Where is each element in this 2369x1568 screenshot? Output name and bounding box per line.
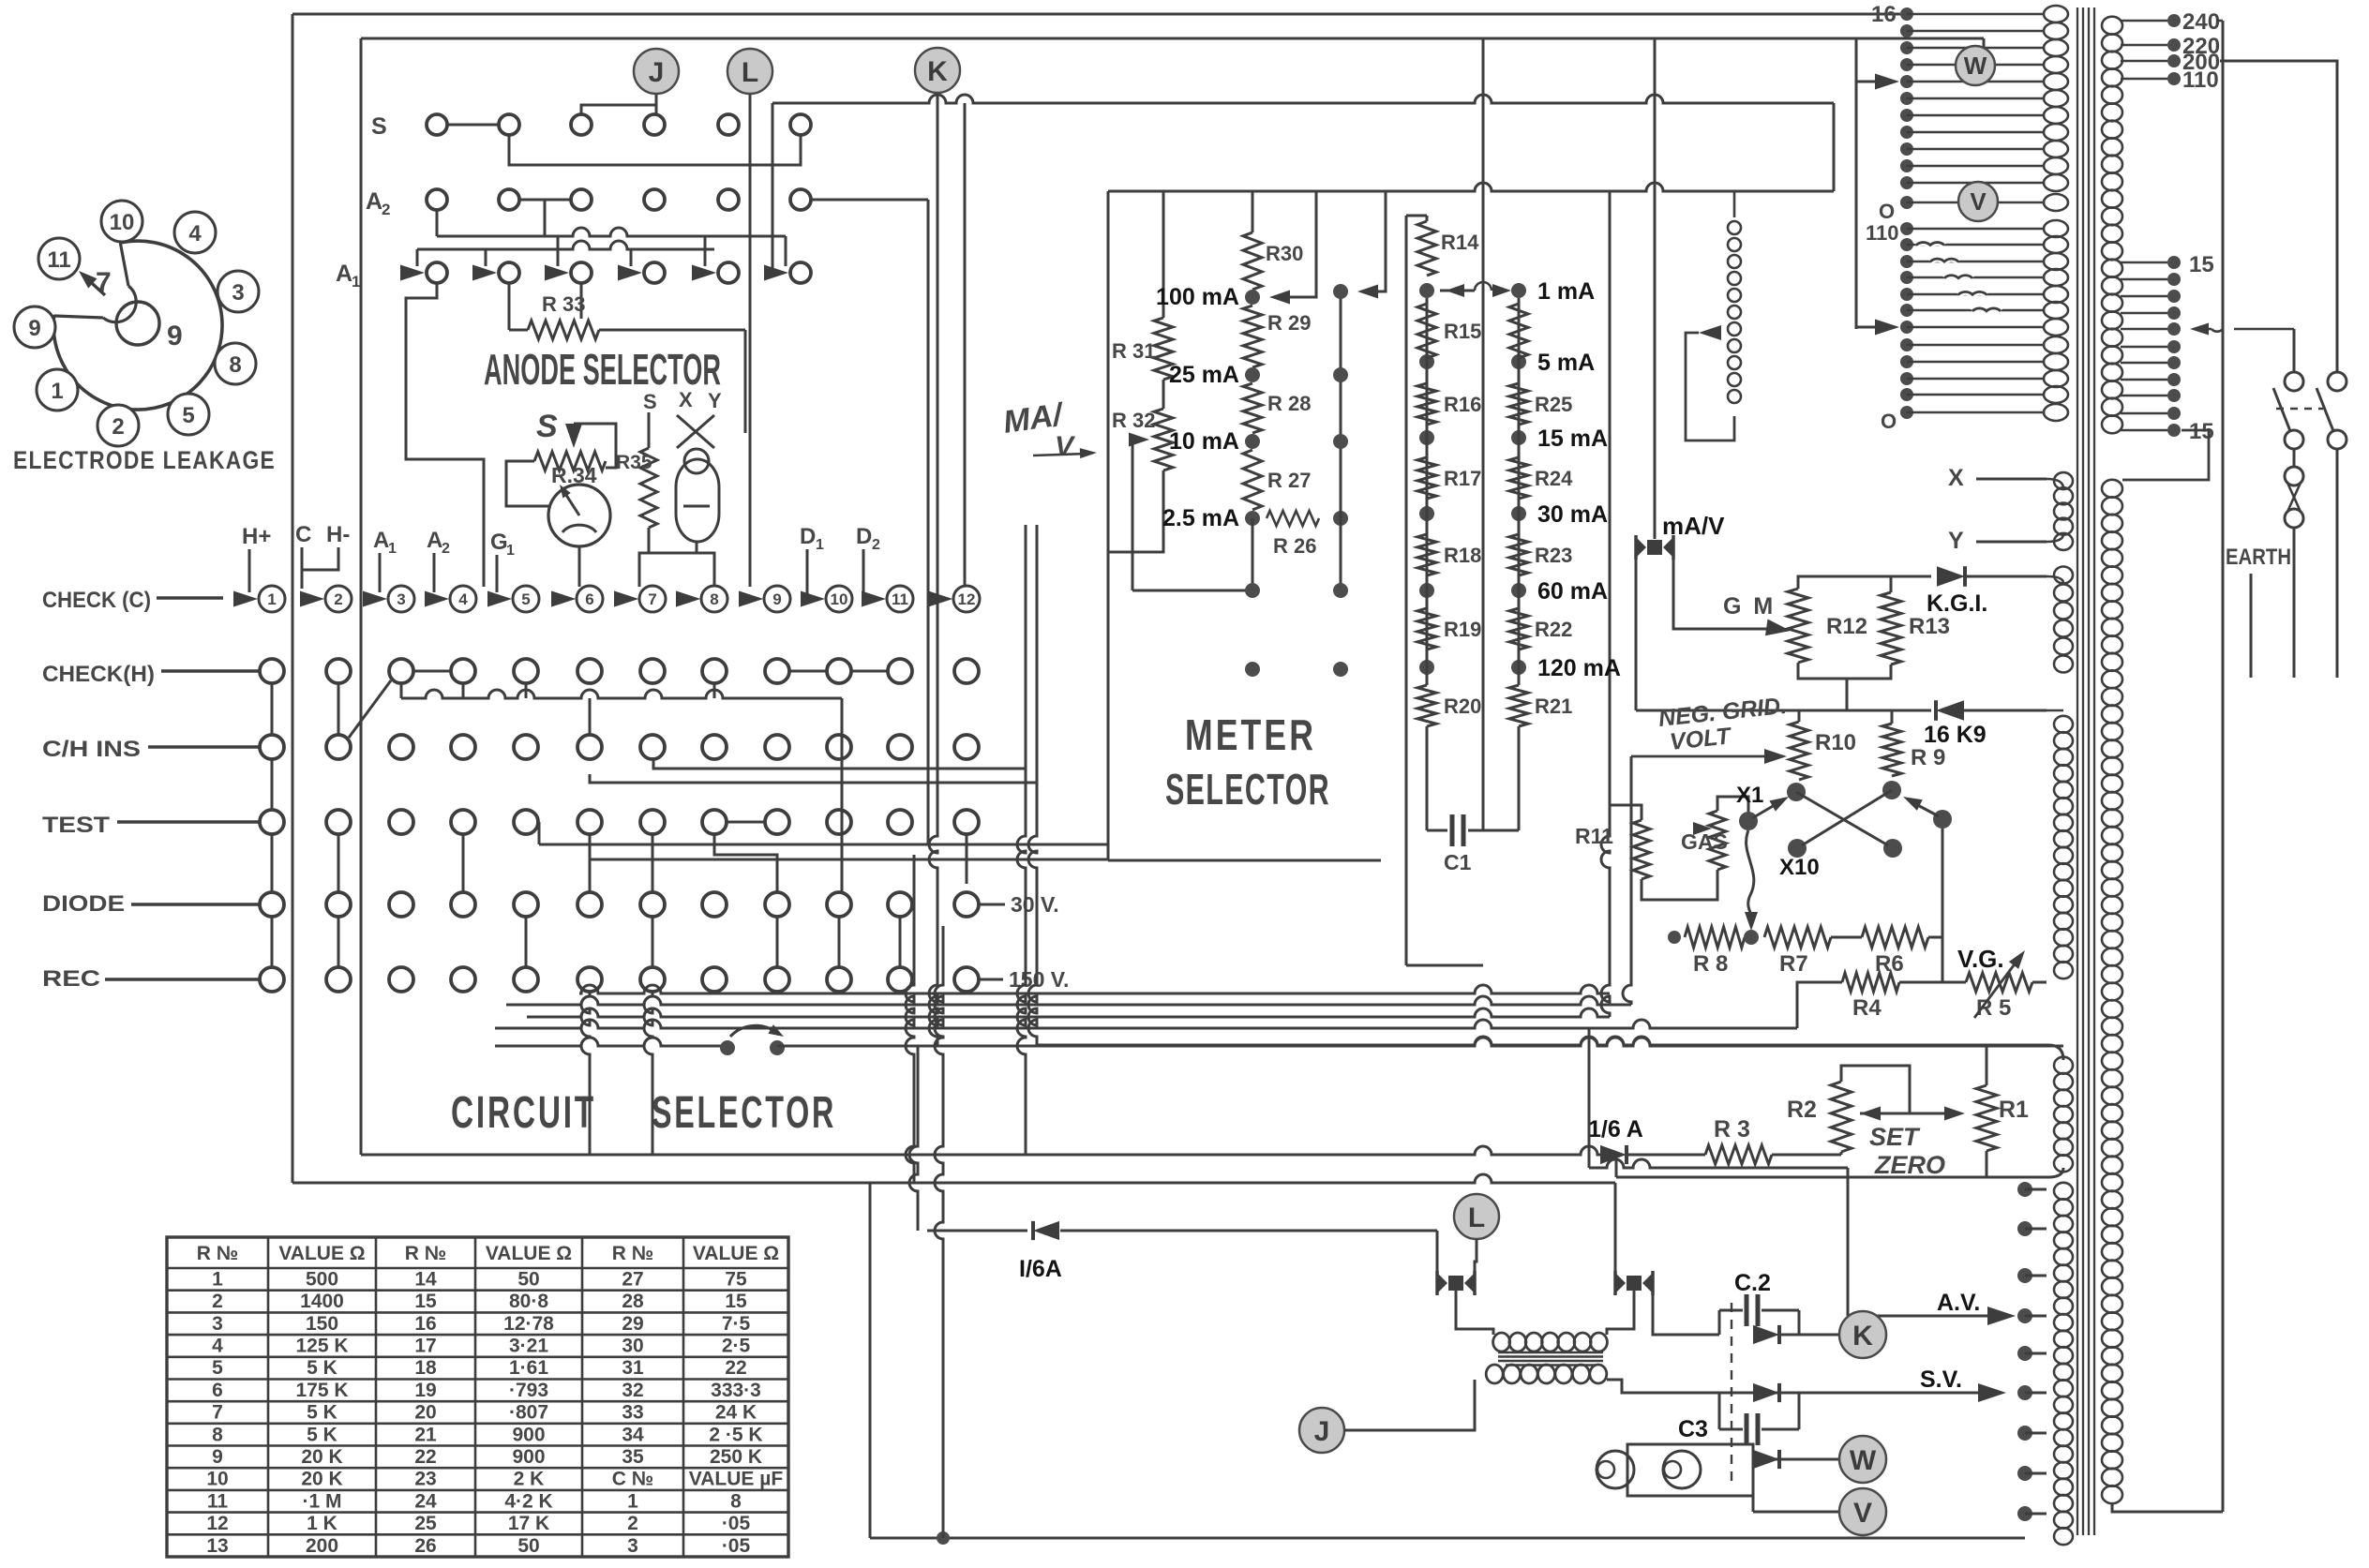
svg-text:C3: C3 [1678, 1416, 1708, 1442]
resistor R2 [1831, 1082, 1852, 1152]
resistor R7 [1764, 927, 1831, 948]
selector chain small circles [1728, 221, 1741, 234]
resistor right chain unnamed [1509, 304, 1528, 358]
node left chain 1 [1419, 354, 1434, 369]
node 10mA [1245, 434, 1260, 449]
fuse mains [2293, 449, 2296, 468]
resistor R31 chain lead [1162, 191, 1165, 318]
wire C/H INS leader [148, 745, 260, 749]
wire 16K9 diode feed [1636, 709, 1931, 712]
svg-text:REC: REC [42, 966, 100, 992]
wire 200 to switch [2220, 61, 2337, 373]
resistor R20 [1417, 685, 1436, 726]
node A.V. [2017, 1308, 2032, 1323]
switch SW1 rotary [720, 1040, 735, 1055]
svg-text:200: 200 [306, 1535, 338, 1557]
wire inner top border [361, 37, 1984, 40]
badge V bottom [1839, 1488, 1886, 1535]
node left chain 4 [1419, 583, 1434, 598]
svg-text:9: 9 [28, 316, 40, 341]
svg-text:20 K: 20 K [301, 1446, 342, 1468]
wire 30V tie [979, 903, 1005, 906]
wire vertical pair to lower buses 1 [1017, 525, 1026, 1155]
svg-text:R23: R23 [1535, 544, 1572, 567]
wire R2 top loop [1841, 1066, 1910, 1113]
selector circle col6 row y=877 [577, 810, 602, 834]
wire vertical x979 to 1/6A feeder [909, 1046, 918, 1231]
svg-text:2: 2 [627, 1513, 638, 1534]
wire lower bus 1 [579, 985, 1610, 993]
svg-text:6: 6 [212, 1380, 223, 1401]
svg-text:R 9: R 9 [1911, 745, 1945, 770]
svg-text:H+: H+ [242, 524, 271, 549]
svg-text:33: 33 [622, 1402, 643, 1424]
wire D down to R6 [1942, 829, 1944, 982]
switch X1/X10 node A [1787, 783, 1806, 801]
wire DIODE col11 vertical [899, 917, 902, 967]
resistor R11 [1633, 820, 1650, 879]
wire J to T2 secondary [1344, 1380, 1475, 1430]
svg-text:5 K: 5 K [307, 1402, 337, 1424]
arrow into 100mA node [1286, 191, 1316, 297]
svg-text:24: 24 [414, 1490, 437, 1512]
resistor R4 [1842, 973, 1899, 992]
wire 240 to right rail [2222, 21, 2225, 1512]
svg-text:30: 30 [622, 1336, 643, 1357]
resistor GAS pot [1709, 811, 1726, 870]
badge J top [634, 49, 679, 94]
contact 9 circled number [764, 586, 790, 612]
contact 12 circled number [953, 586, 980, 612]
node right chain 2 [1511, 430, 1526, 445]
wire R32 bottom to box [1108, 470, 1163, 552]
svg-text:4: 4 [458, 590, 468, 608]
wire R14 box bottom [1406, 964, 1483, 967]
svg-text:R 29: R 29 [1267, 311, 1311, 335]
wire D2 lead [863, 549, 878, 599]
svg-text:D: D [856, 524, 872, 549]
contact 6 arrow [551, 591, 576, 607]
wire vertical pair to lower buses 2 [1028, 525, 1037, 1046]
wire bus under CHECK(H) row [401, 690, 842, 698]
transformer T2 core [1498, 1351, 1603, 1354]
wire A2-c1 drop [436, 210, 439, 236]
svg-text:R11: R11 [1575, 824, 1613, 848]
wire S lead to R35 [648, 412, 651, 448]
resistor R34 [534, 452, 606, 470]
wire A1 cascade bus 1 [437, 228, 786, 236]
contact 5 arrow [487, 591, 512, 607]
selector circle col2 row y=877 [326, 810, 351, 834]
svg-text:100 mA: 100 mA [1156, 284, 1239, 310]
svg-text:2: 2 [334, 590, 342, 608]
svg-text:5 K: 5 K [307, 1424, 337, 1445]
switch mains pole 1 [2285, 372, 2303, 391]
svg-text:30 mA: 30 mA [1537, 501, 1608, 528]
wire NEG GRID vertical [1623, 756, 1631, 1005]
svg-text:3·21: 3·21 [509, 1336, 548, 1357]
wire REC leader [105, 978, 260, 981]
wire lower bus 3 [527, 1008, 1610, 1017]
svg-text:15 mA: 15 mA [1537, 426, 1608, 452]
svg-text:R2: R2 [1787, 1097, 1817, 1123]
bulb box [1627, 1444, 1753, 1496]
svg-text:V: V [1853, 1498, 1872, 1529]
node bottom right pair [1333, 662, 1348, 677]
svg-text:12·78: 12·78 [503, 1313, 554, 1335]
switch mains pole 2 [2328, 372, 2347, 391]
selector circle col8 row y=877 [702, 810, 727, 834]
resistor R29 [1243, 306, 1262, 367]
svg-text:W: W [1964, 52, 1987, 80]
svg-text:R14: R14 [1441, 231, 1479, 254]
svg-text:R 8: R 8 [1693, 951, 1728, 977]
wire K bus drop to meter box [1833, 103, 1836, 191]
resistor R26 [1267, 511, 1319, 526]
contact 10 arrow [801, 591, 825, 607]
resistor R18 [1417, 534, 1436, 575]
wire TEST row jog to bus [538, 822, 541, 844]
selector circle col5 row y=965 [514, 892, 538, 917]
svg-text:35: 35 [622, 1446, 644, 1468]
svg-text:R12: R12 [1826, 614, 1867, 639]
wire col1 vertical chain [271, 683, 274, 735]
svg-text:12: 12 [206, 1513, 228, 1534]
resistor R30 lead [1252, 191, 1254, 232]
svg-text:X10: X10 [1779, 855, 1820, 880]
svg-text:R15: R15 [1444, 320, 1481, 343]
resistor R27 [1243, 450, 1262, 510]
wire switch bus continue to set zero box [777, 1038, 2063, 1046]
wire C lead [301, 547, 304, 589]
svg-text:175 K: 175 K [295, 1380, 348, 1401]
svg-text:ANODE SELECTOR: ANODE SELECTOR [484, 345, 721, 394]
contact 7 arrow [614, 591, 638, 607]
selector circle col11 row y=1045 [888, 967, 912, 992]
svg-text:R1: R1 [1999, 1097, 2029, 1123]
tube socket pin 4 [174, 212, 216, 253]
svg-text:900: 900 [512, 1424, 545, 1445]
svg-text:R17: R17 [1444, 467, 1481, 490]
wire K second drop to contact 12 [964, 103, 967, 587]
svg-text:DIODE: DIODE [42, 891, 125, 917]
svg-text:17: 17 [414, 1336, 436, 1357]
selector circle col2 row y=716 [326, 659, 351, 683]
diode fuse 1/6A right [1600, 1145, 1627, 1164]
svg-text:R35: R35 [616, 452, 652, 473]
wire fuse to thermocouple L [1436, 1231, 1439, 1271]
resistor R6 [1862, 927, 1928, 948]
svg-text:28: 28 [622, 1291, 644, 1312]
tube socket pin 1 [37, 369, 78, 411]
tube socket pin 5 [168, 394, 209, 435]
selector circle col2 row y=797 [326, 735, 351, 759]
dashed line capacitors [1731, 1303, 1732, 1482]
svg-text:13: 13 [206, 1535, 228, 1557]
wire stub to W winding [1983, 38, 1986, 49]
wire A1 lead [379, 553, 382, 592]
wire bottom bus [870, 1537, 2025, 1540]
tube socket pin 9 left [14, 306, 55, 348]
selector circle col3 row y=965 [389, 892, 413, 917]
capacitor C3 branch [1718, 1393, 1721, 1429]
svg-text:2 K: 2 K [514, 1469, 545, 1490]
svg-text:SET: SET [1869, 1123, 1921, 1151]
svg-text:K: K [1852, 1321, 1873, 1351]
svg-text:1: 1 [388, 541, 397, 557]
selector circle col4 row y=877 [451, 810, 475, 834]
resistor R17 [1417, 457, 1436, 499]
contact 6 circled number [577, 586, 603, 612]
wire bulb box to V line [1752, 1496, 1755, 1512]
svg-text:G M: G M [1723, 593, 1776, 620]
node 2.5mA [1245, 511, 1260, 526]
wire A2 links [519, 199, 571, 202]
svg-text:·05: ·05 [722, 1513, 751, 1534]
tube socket pin 11 [38, 238, 80, 279]
arrow GAS wiper [1693, 822, 1712, 835]
svg-text:34: 34 [622, 1424, 644, 1445]
resistor R1 [1976, 1085, 1997, 1151]
selector circle col7 row y=877 [640, 810, 665, 834]
wire W line [1753, 1458, 1839, 1461]
bulb B1 [1597, 1451, 1634, 1488]
winding K.G.I. [2054, 567, 2073, 673]
svg-text:C1: C1 [1444, 850, 1472, 874]
resistor R14 [1426, 216, 1429, 221]
svg-text:R20: R20 [1444, 694, 1481, 718]
svg-text:R21: R21 [1535, 694, 1572, 718]
node R26 right [1333, 511, 1348, 526]
svg-text:1: 1 [51, 379, 63, 404]
wire switch bus [495, 1038, 727, 1046]
node right col 2 [1333, 367, 1348, 382]
S row contacts [427, 114, 447, 135]
A1 row contacts with arrows [400, 265, 425, 281]
resistor R3 [1705, 1145, 1772, 1164]
svg-text:15: 15 [414, 1291, 437, 1312]
diode fuse 1/6A left [927, 1230, 1027, 1232]
wire 150V tie [979, 978, 1003, 981]
resistor R15 [1417, 304, 1436, 358]
selector circle col4 row y=797 [451, 735, 475, 759]
svg-text:1: 1 [267, 590, 276, 608]
switch node E [1788, 839, 1807, 858]
wire top feed to transformer taps [1855, 38, 1858, 329]
wire cascade stubs [416, 249, 419, 266]
resistor R19 [1417, 608, 1436, 650]
wire meter bottom to contact 6 [578, 546, 581, 587]
svg-text:5: 5 [521, 590, 530, 608]
wire A2-c6 to right vertical [811, 199, 928, 202]
resistor R13 [1881, 592, 1901, 665]
tube socket pin 3 [217, 271, 259, 312]
selector circle col7 row y=797 [640, 735, 665, 759]
wire blade A to F [1796, 792, 1888, 845]
svg-text:16: 16 [414, 1313, 436, 1335]
svg-text:Y: Y [708, 389, 722, 412]
potentiometer R34 arrow [565, 424, 582, 448]
contact 3 circled number [388, 586, 414, 612]
svg-text:5 K: 5 K [307, 1357, 337, 1379]
svg-text:R 28: R 28 [1267, 392, 1311, 415]
contact 12 arrow [928, 591, 952, 607]
wire set zero bottom left elbow [1615, 1155, 1618, 1177]
selector circle col11 row y=797 [888, 735, 912, 759]
wire S2 jog right [509, 135, 801, 165]
resistor R30 [1243, 232, 1262, 290]
tube socket pin 8 [215, 343, 256, 384]
selector circle col5 row y=797 [514, 735, 538, 759]
svg-text:240: 240 [2182, 9, 2220, 35]
svg-text:2: 2 [382, 201, 390, 218]
badge L top [727, 49, 772, 94]
selector circle col6 row y=716 [577, 659, 602, 683]
wire R3 to R2 [1772, 1154, 1841, 1157]
wire A2 lead [433, 553, 436, 592]
svg-text:3: 3 [212, 1313, 223, 1335]
wire tap cascade hops [1916, 243, 1944, 246]
wire J to S contacts [655, 94, 658, 114]
arrow tap 15 wiper [2212, 329, 2294, 332]
wire outer bottom bus toward thermocouple [292, 1174, 1615, 1183]
wire R4 left to bus [1797, 982, 1842, 1028]
selector circle col7 row y=716 [640, 659, 665, 683]
wire long vertical from A2 row [927, 200, 930, 844]
selector circle col1 row y=877 [260, 810, 284, 834]
svg-text:G: G [490, 530, 508, 555]
svg-text:1 K: 1 K [307, 1513, 337, 1534]
svg-text:R 31: R 31 [1112, 339, 1155, 363]
tube socket body [53, 241, 222, 410]
svg-text:23: 23 [414, 1469, 436, 1490]
contact 5 circled number [513, 586, 539, 612]
svg-text:500: 500 [306, 1268, 338, 1290]
resistor R10 [1798, 710, 1801, 722]
A2 row contacts [427, 189, 447, 210]
svg-text:V: V [1055, 431, 1076, 462]
selector circle col11 row y=877 [888, 810, 912, 834]
node lower left pair [1245, 583, 1260, 598]
arrow tap feed lower [1856, 326, 1884, 329]
resistor right chain R22 [1509, 608, 1528, 650]
selector circle col12 row y=1045 [954, 967, 979, 992]
svg-text:R18: R18 [1444, 544, 1481, 567]
wiper arrows set zero [1860, 1107, 1881, 1121]
wire A1 c3 drop [580, 283, 583, 319]
selector circle col9 row y=797 [765, 735, 789, 759]
svg-text:8: 8 [710, 590, 718, 608]
wire DIODE leader [131, 903, 260, 906]
svg-text:R30: R30 [1266, 242, 1303, 265]
node R8 R7 junction [1744, 930, 1759, 945]
diode SV line [1753, 1383, 1779, 1402]
wire set zero box top [1037, 1037, 1987, 1045]
svg-text:L: L [1468, 1202, 1485, 1233]
right output dots column [2017, 1182, 2032, 1197]
wire L drop [1475, 1239, 1477, 1271]
wire arrow feed right column [1371, 191, 1386, 291]
badge W on winding [1956, 46, 1995, 85]
resistor R28 [1243, 383, 1262, 433]
selector circle col1 row y=716 [260, 659, 284, 683]
wire nested L from A1 c1 [406, 283, 484, 587]
svg-text:5: 5 [182, 403, 194, 428]
svg-text:R 33: R 33 [542, 292, 585, 316]
svg-text:3: 3 [232, 280, 244, 306]
wire col2 vertical segments [337, 834, 340, 892]
node left chain 5 [1419, 660, 1434, 675]
svg-text:27: 27 [622, 1268, 643, 1290]
wire vertical x1006 [935, 926, 943, 1538]
svg-text:8: 8 [730, 1490, 742, 1512]
transformer T1 secondary top taps [2121, 20, 2167, 22]
diode K.G.I. [1937, 566, 1965, 587]
svg-text:7·5: 7·5 [722, 1313, 751, 1335]
transformer T2 secondary [1486, 1365, 1607, 1383]
wire squiggle C to R8 junction [1747, 830, 1754, 923]
svg-text:R 32: R 32 [1112, 409, 1155, 432]
wire col8 jog down [714, 834, 777, 892]
svg-text:1: 1 [212, 1268, 223, 1290]
wire inner bottom bus with 1/6A diode and R3 [361, 1146, 1602, 1155]
arrow S.V. [1978, 1383, 2006, 1402]
wire earth lead [2250, 574, 2253, 678]
transformer T2 primary [1493, 1333, 1608, 1351]
svg-text:CHECK (C): CHECK (C) [42, 588, 151, 613]
svg-text:SELECTOR: SELECTOR [652, 1088, 836, 1138]
contact 10 circled number [826, 586, 852, 612]
svg-text:K: K [927, 56, 948, 87]
node R8 left [1668, 931, 1681, 944]
wire meter selector right mini column [1340, 291, 1342, 590]
svg-text:14: 14 [414, 1268, 437, 1290]
contact 4 arrow [425, 591, 449, 607]
svg-text:60 mA: 60 mA [1537, 578, 1608, 605]
svg-text:CHECK(H): CHECK(H) [42, 662, 155, 687]
wire left outer border down to bottom bus [292, 14, 294, 1183]
svg-text:15: 15 [2189, 419, 2214, 444]
wire TEST col links down [462, 834, 465, 892]
resistor R35 [640, 448, 657, 528]
svg-text:75: 75 [725, 1268, 747, 1290]
node left chain 2 [1419, 430, 1434, 445]
svg-text:R13: R13 [1909, 614, 1950, 639]
svg-text:16 K9: 16 K9 [1924, 722, 1987, 748]
diode W line [1753, 1450, 1779, 1469]
node right col 3 [1333, 434, 1348, 449]
wire blade D to B [1912, 802, 1939, 816]
thermocouple K [1627, 1276, 1642, 1291]
contact 2 arrow [300, 591, 324, 607]
wire meter selector box left [1107, 191, 1110, 860]
selector circle col10 row y=877 [827, 810, 851, 834]
svg-text:1/6 A: 1/6 A [1588, 1116, 1643, 1142]
svg-text:O: O [1881, 410, 1897, 433]
svg-text:1: 1 [506, 543, 515, 559]
svg-text:2: 2 [872, 537, 880, 553]
svg-text:17 K: 17 K [508, 1513, 549, 1534]
wire TEST row link [727, 821, 765, 824]
selector circle col2 row y=965 [326, 892, 351, 917]
wire center vertical from top to C1 [1482, 38, 1485, 830]
wire col12 to 30V drop [966, 834, 968, 884]
svg-text:K.G.I.: K.G.I. [1927, 590, 1987, 617]
svg-text:15: 15 [2189, 252, 2214, 277]
transformer T1 secondary coil [2102, 17, 2122, 434]
winding set zero [2054, 1057, 2073, 1172]
svg-text:R7: R7 [1779, 951, 1808, 977]
